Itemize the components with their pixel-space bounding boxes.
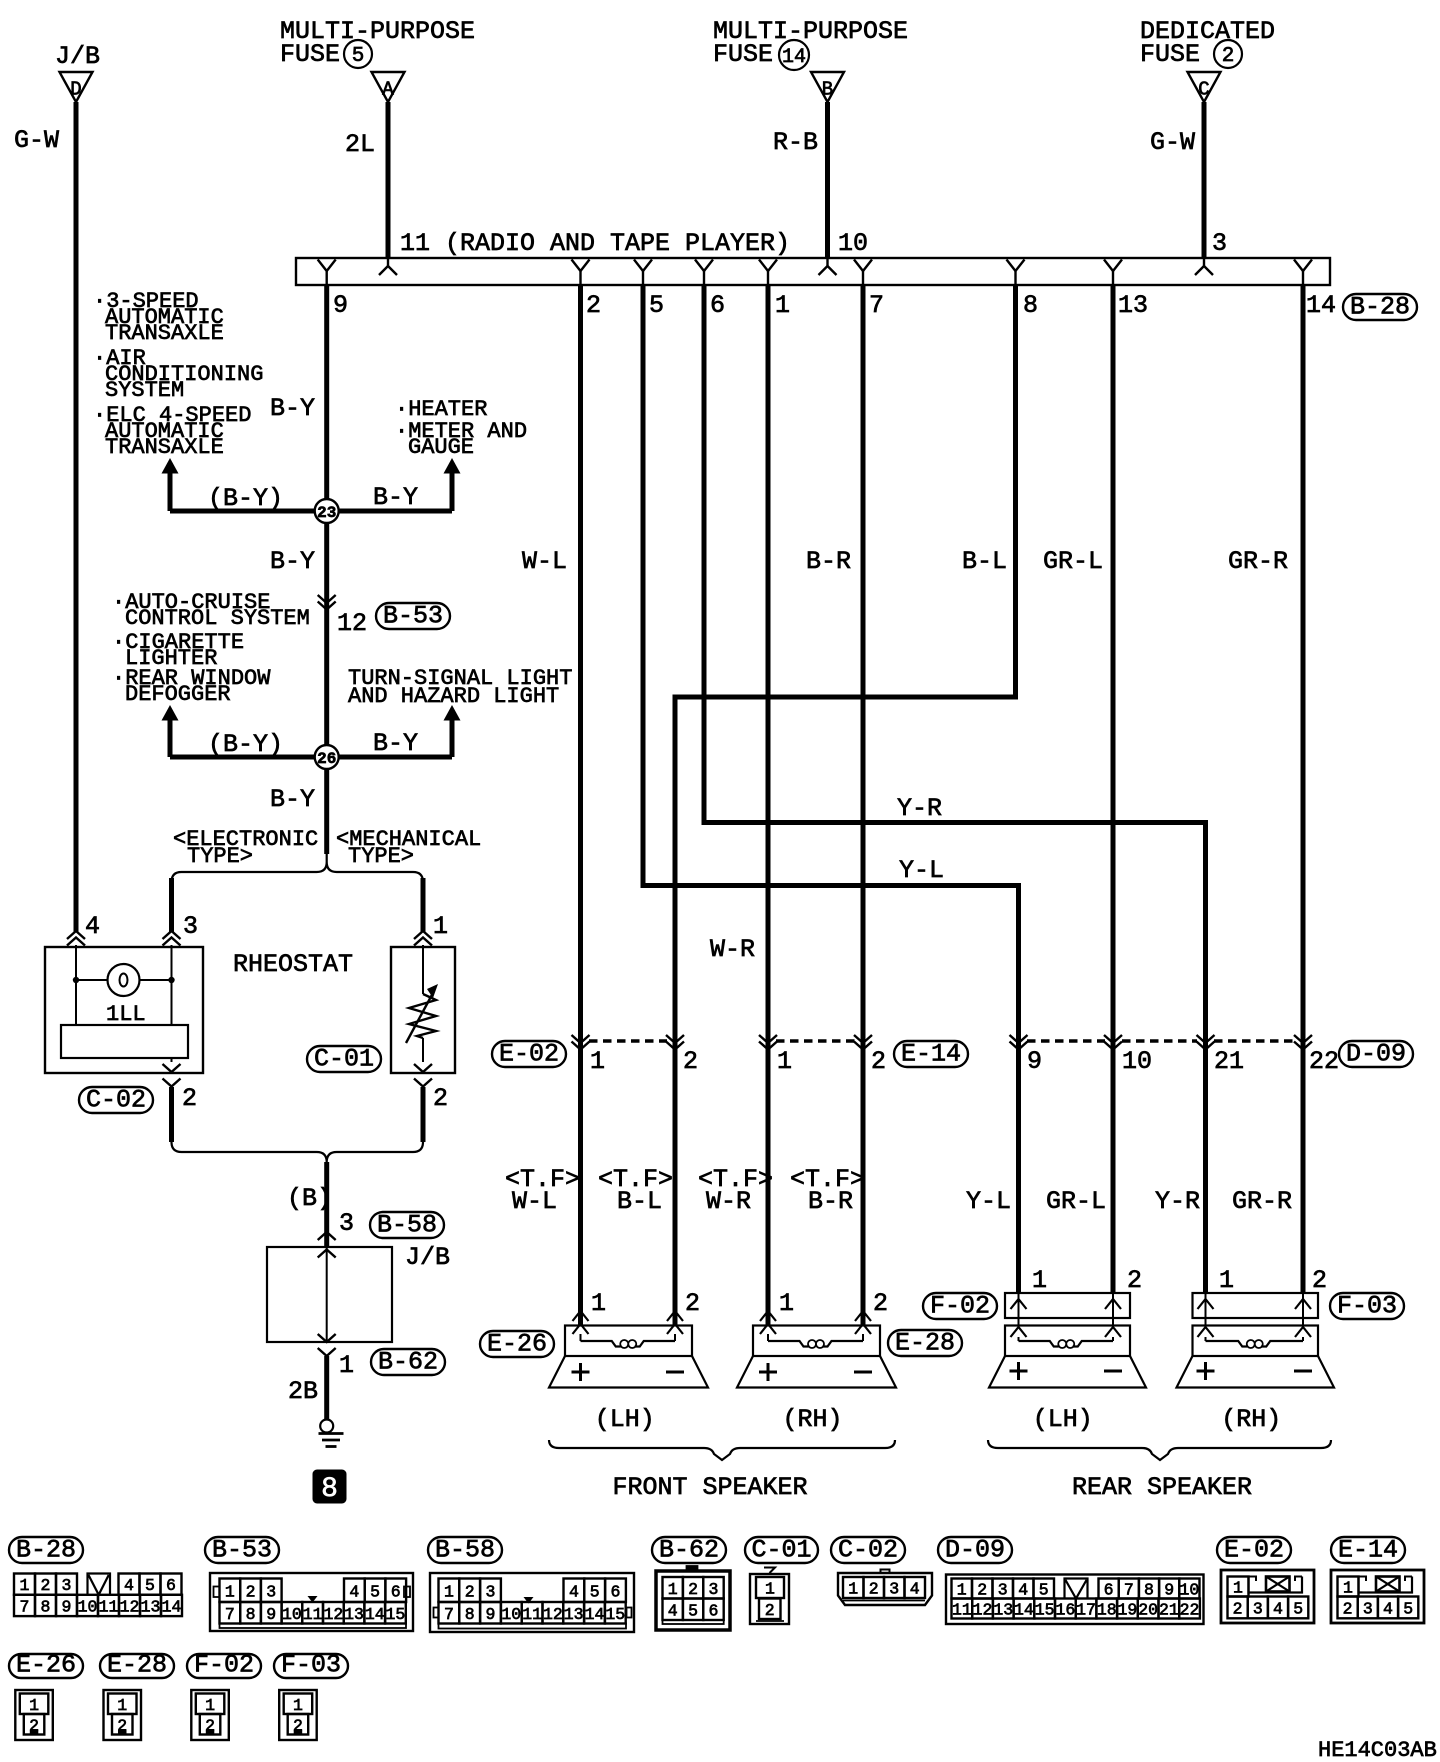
svg-text:W-L: W-L [512, 1187, 557, 1216]
speaker cone trapezoid [737, 1356, 896, 1388]
J/B box [267, 1247, 392, 1342]
svg-text:16: 16 [1055, 1601, 1075, 1620]
svg-text:1: 1 [293, 1696, 303, 1715]
radio and tape player connector box B-28 [296, 258, 1330, 285]
svg-text:13: 13 [141, 1597, 161, 1616]
rear speaker group brace [988, 1440, 1331, 1460]
svg-text:3: 3 [1253, 1599, 1263, 1618]
svg-text:6: 6 [709, 1601, 719, 1620]
wire 2B to ground [324, 1356, 329, 1420]
svg-text:1: 1 [775, 291, 790, 320]
svg-text:6: 6 [391, 1582, 401, 1601]
svg-text:B-Y: B-Y [373, 483, 418, 512]
svg-text:5: 5 [1293, 1599, 1303, 1618]
svg-text:3: 3 [998, 1581, 1008, 1600]
svg-text:8: 8 [321, 1474, 338, 1505]
svg-text:SYSTEM: SYSTEM [105, 378, 184, 403]
svg-text:D-09: D-09 [1346, 1040, 1406, 1069]
connector pinout E-02 [1217, 1537, 1291, 1563]
svg-text:2: 2 [871, 1047, 886, 1076]
svg-text:5: 5 [688, 1601, 698, 1620]
svg-text:REAR SPEAKER: REAR SPEAKER [1072, 1473, 1252, 1502]
svg-text:2: 2 [765, 1601, 775, 1620]
svg-text:3: 3 [339, 1209, 354, 1238]
svg-text:F-03: F-03 [281, 1651, 341, 1680]
svg-text:J/B: J/B [405, 1243, 450, 1272]
speaker coil box [565, 1326, 692, 1357]
svg-text:E-26: E-26 [16, 1651, 76, 1680]
svg-text:7: 7 [444, 1605, 454, 1624]
svg-text:14: 14 [1014, 1601, 1034, 1620]
svg-text:4: 4 [1273, 1599, 1283, 1618]
svg-text:13: 13 [564, 1605, 584, 1624]
svg-text:7: 7 [869, 291, 884, 320]
svg-text:14: 14 [162, 1597, 182, 1616]
svg-text:19: 19 [1118, 1601, 1138, 1620]
svg-text:W-R: W-R [710, 935, 755, 964]
svg-text:2: 2 [41, 1576, 51, 1595]
svg-text:2: 2 [683, 1047, 698, 1076]
svg-text:3: 3 [486, 1582, 496, 1601]
svg-text:7: 7 [1124, 1581, 1134, 1600]
svg-text:5: 5 [590, 1582, 600, 1601]
wire W-L pin 2 to front speaker LH + [578, 285, 583, 1326]
svg-text:5: 5 [370, 1582, 380, 1601]
svg-text:B-R: B-R [806, 547, 851, 576]
wire GR-L pin 13 to rear speaker LH - [1111, 285, 1116, 1294]
svg-text:FUSE: FUSE [713, 40, 773, 69]
svg-text:5: 5 [649, 291, 664, 320]
svg-text:4: 4 [85, 912, 100, 941]
wire G-W from fuse C to radio pin 3 [1202, 102, 1207, 259]
connector label B-58 [370, 1212, 444, 1238]
wire to rheostat pin 3 [169, 878, 174, 932]
D-09 keyway [1065, 1579, 1088, 1599]
svg-text:1: 1 [433, 912, 448, 941]
svg-text:9: 9 [1164, 1581, 1174, 1600]
svg-text:8: 8 [1144, 1581, 1154, 1600]
connector label C-02 [79, 1087, 153, 1113]
svg-text:12: 12 [337, 609, 367, 638]
svg-text:9: 9 [266, 1605, 276, 1624]
svg-text:10: 10 [501, 1605, 521, 1624]
svg-text:1: 1 [779, 1289, 794, 1318]
svg-text:11 (RADIO AND TAPE PLAYER): 11 (RADIO AND TAPE PLAYER) [400, 229, 790, 258]
svg-text:G-W: G-W [1150, 128, 1195, 157]
wire 2L from fuse A to radio pin 11 [386, 102, 391, 259]
svg-text:1: 1 [444, 1582, 454, 1601]
svg-text:5: 5 [1403, 1599, 1413, 1618]
lamp circuit inside: wire [75, 945, 77, 980]
svg-text:4: 4 [668, 1601, 678, 1620]
connector pinout E-14 [1331, 1537, 1405, 1563]
svg-text:B-Y: B-Y [270, 785, 315, 814]
svg-text:12: 12 [120, 1597, 140, 1616]
wire B-Y pin 9 down [324, 285, 329, 854]
speaker cone trapezoid [549, 1356, 708, 1388]
svg-text:13: 13 [344, 1605, 364, 1624]
svg-text:TRANSAXLE: TRANSAXLE [105, 435, 224, 460]
connector pinout E-26 [9, 1654, 83, 1678]
ground reference 8 (black box) [313, 1470, 346, 1503]
svg-text:14: 14 [365, 1605, 385, 1624]
svg-text:15: 15 [1035, 1601, 1055, 1620]
svg-text:21: 21 [1214, 1047, 1244, 1076]
svg-text:G-W: G-W [14, 126, 59, 155]
connector pinout C-02 [831, 1537, 905, 1563]
svg-text:13: 13 [993, 1601, 1013, 1620]
connector pinout B-62 [652, 1537, 726, 1563]
radio box pin arrows (outgoing) [318, 260, 336, 272]
svg-text:1: 1 [668, 1580, 678, 1599]
svg-text:(B-Y): (B-Y) [208, 730, 283, 759]
svg-text:1: 1 [590, 1047, 605, 1076]
svg-text:C-01: C-01 [751, 1536, 811, 1565]
chevrons at intermediate connectors [572, 1035, 590, 1043]
svg-text:2: 2 [586, 291, 601, 320]
svg-text:Y-L: Y-L [899, 856, 944, 885]
svg-text:5: 5 [1039, 1581, 1049, 1600]
chevrons exiting J/B to B-62 pin 1 [318, 1334, 336, 1342]
svg-text:14: 14 [1306, 291, 1336, 320]
wire B-R pin 7 to front speaker RH - [861, 285, 866, 1326]
svg-text:8: 8 [246, 1605, 256, 1624]
svg-text:B-L: B-L [617, 1187, 662, 1216]
connector pinout E-28 [100, 1654, 174, 1678]
svg-text:B-Y: B-Y [270, 547, 315, 576]
svg-text:B-Y: B-Y [373, 729, 418, 758]
svg-text:12: 12 [323, 1605, 343, 1624]
svg-text:11: 11 [99, 1597, 119, 1616]
svg-text:F-03: F-03 [1337, 1292, 1397, 1321]
svg-text:Y-L: Y-L [966, 1187, 1011, 1216]
bottom brace merging to (B) wire [172, 1140, 424, 1162]
connector label C-01 [307, 1046, 381, 1072]
svg-text:E-02: E-02 [1224, 1536, 1284, 1565]
svg-text:5: 5 [352, 45, 365, 68]
svg-text:TYPE>: TYPE> [187, 844, 253, 869]
svg-text:B-28: B-28 [16, 1536, 76, 1565]
svg-text:B: B [822, 79, 833, 101]
svg-text:FUSE: FUSE [1140, 40, 1200, 69]
svg-text:GAUGE: GAUGE [408, 435, 474, 460]
wire W-R pin 1 to front speaker RH + [766, 285, 771, 1326]
svg-text:(LH): (LH) [595, 1405, 655, 1434]
svg-text:1: 1 [591, 1289, 606, 1318]
svg-text:1: 1 [225, 1582, 235, 1601]
svg-text:8: 8 [465, 1605, 475, 1624]
rear speaker LH [1005, 1326, 1130, 1357]
svg-text:2: 2 [1222, 45, 1235, 68]
svg-text:R-B: R-B [773, 128, 818, 157]
svg-text:E-28: E-28 [895, 1329, 955, 1358]
svg-text:23: 23 [317, 504, 336, 522]
svg-text:B-62: B-62 [378, 1348, 438, 1377]
svg-text:3: 3 [183, 912, 198, 941]
svg-text:2L: 2L [345, 130, 375, 159]
svg-text:F-02: F-02 [194, 1651, 254, 1680]
svg-text:6: 6 [166, 1576, 176, 1595]
svg-text:8: 8 [1023, 291, 1038, 320]
branch wire horizontal node 23 [170, 509, 452, 514]
svg-text:E-14: E-14 [1338, 1536, 1398, 1565]
connector label B-28 [1343, 294, 1417, 320]
svg-text:B-62: B-62 [659, 1536, 719, 1565]
svg-text:9: 9 [1027, 1047, 1042, 1076]
svg-text:2: 2 [433, 1084, 448, 1113]
wire B-L pin 8: down, left, down to front speaker LH - [675, 285, 1016, 1326]
svg-text:3: 3 [1212, 229, 1227, 258]
plus terminal [759, 1371, 777, 1374]
svg-text:22: 22 [1180, 1601, 1200, 1620]
svg-text:A: A [382, 79, 394, 101]
svg-text:B-28: B-28 [1350, 293, 1410, 322]
svg-text:3: 3 [889, 1580, 899, 1599]
svg-text:1: 1 [205, 1696, 215, 1715]
svg-text:CONTROL SYSTEM: CONTROL SYSTEM [125, 606, 310, 631]
connector pinout B-58 [428, 1537, 502, 1563]
svg-text:3: 3 [62, 1576, 72, 1595]
svg-text:B-R: B-R [808, 1187, 853, 1216]
svg-text:D-09: D-09 [945, 1536, 1005, 1565]
svg-text:2: 2 [977, 1581, 987, 1600]
svg-text:10: 10 [838, 229, 868, 258]
svg-text:FUSE: FUSE [280, 40, 340, 69]
coil [581, 1341, 621, 1347]
svg-text:4: 4 [349, 1582, 359, 1601]
rheostat electronic type box C-02 [45, 947, 203, 1073]
svg-text:7: 7 [225, 1605, 235, 1624]
svg-text:2: 2 [182, 1084, 197, 1113]
connector pinout F-02 [187, 1654, 261, 1678]
branch arrows to transaxle (left) at node 23 [162, 458, 179, 474]
svg-text:2: 2 [685, 1289, 700, 1318]
svg-text:1: 1 [765, 1580, 775, 1599]
svg-text:10: 10 [78, 1597, 98, 1616]
wire GR-R pin 14 to rear speaker RH - [1301, 285, 1306, 1294]
junction node 26 [315, 745, 339, 769]
svg-text:26: 26 [317, 750, 336, 768]
radio box pin arrows (incoming from fuses) [387, 259, 389, 267]
chevrons exiting C-02 pin 2 [163, 1064, 181, 1072]
svg-text:2: 2 [688, 1580, 698, 1599]
svg-text:GR-L: GR-L [1043, 547, 1103, 576]
svg-text:18: 18 [1097, 1601, 1117, 1620]
svg-text:W-L: W-L [522, 547, 567, 576]
svg-text:HE14C03AB: HE14C03AB [1318, 1738, 1437, 1762]
wire to rheostat pin 1 [421, 878, 426, 932]
svg-text:20: 20 [1138, 1601, 1158, 1620]
svg-text:(RH): (RH) [1221, 1405, 1281, 1434]
svg-text:15: 15 [386, 1605, 406, 1624]
svg-text:J/B: J/B [55, 42, 100, 71]
branch arrow to heater (right) at node 23 [444, 458, 461, 474]
ground symbol [320, 1420, 333, 1433]
svg-text:Y-R: Y-R [897, 794, 942, 823]
svg-text:(LH): (LH) [1033, 1405, 1093, 1434]
svg-text:9: 9 [486, 1605, 496, 1624]
svg-text:3: 3 [1363, 1599, 1373, 1618]
svg-text:17: 17 [1076, 1601, 1096, 1620]
rheostat mechanical type box C-01 [391, 947, 455, 1073]
svg-text:E-28: E-28 [107, 1651, 167, 1680]
svg-text:6: 6 [1104, 1581, 1114, 1600]
connector B-53 pin 12 pass-through chevrons [318, 595, 336, 603]
svg-text:2: 2 [1127, 1266, 1142, 1295]
svg-text:TYPE>: TYPE> [348, 844, 414, 869]
rear speaker RH [1193, 1326, 1319, 1357]
svg-text:3: 3 [709, 1580, 719, 1599]
connector pinout C-01 [745, 1537, 818, 1563]
svg-text:4: 4 [124, 1576, 134, 1595]
svg-text:B-58: B-58 [435, 1536, 495, 1565]
svg-text:1: 1 [848, 1580, 858, 1599]
svg-text:1: 1 [1219, 1266, 1234, 1295]
svg-text:14: 14 [585, 1605, 605, 1624]
svg-text:2: 2 [869, 1580, 879, 1599]
inner resistor block [61, 1025, 188, 1058]
svg-text:9: 9 [62, 1597, 72, 1616]
wire (B) down to J/B [324, 1162, 329, 1247]
front speaker group brace [549, 1440, 895, 1460]
svg-text:7: 7 [20, 1597, 30, 1616]
svg-text:10: 10 [282, 1605, 302, 1624]
svg-text:6: 6 [710, 291, 725, 320]
svg-text:GR-R: GR-R [1232, 1187, 1292, 1216]
svg-text:22: 22 [1309, 1047, 1339, 1076]
svg-text:Y-R: Y-R [1155, 1187, 1200, 1216]
svg-text:21: 21 [1159, 1601, 1179, 1620]
svg-text:8: 8 [41, 1597, 51, 1616]
connector label B-53 [376, 603, 450, 629]
connector label E-02 [492, 1041, 566, 1067]
connector pinout F-03 [274, 1654, 348, 1678]
svg-text:E-14: E-14 [901, 1040, 961, 1069]
svg-text:B-53: B-53 [383, 602, 443, 631]
svg-text:2B: 2B [288, 1377, 318, 1406]
lamp symbol 1LL [108, 964, 140, 996]
intermediate connectors dashed line [589, 1039, 667, 1043]
svg-text:RHEOSTAT: RHEOSTAT [233, 950, 353, 979]
svg-text:11: 11 [522, 1605, 542, 1624]
svg-text:C-02: C-02 [86, 1086, 146, 1115]
svg-text:1: 1 [1343, 1579, 1353, 1598]
svg-text:11: 11 [303, 1605, 323, 1624]
wire G-W from J/B D down to rheostat pin 4 [74, 102, 79, 932]
svg-text:DEFOGGER: DEFOGGER [125, 682, 231, 707]
svg-text:C: C [1198, 79, 1209, 101]
svg-text:E-02: E-02 [499, 1040, 559, 1069]
svg-text:10: 10 [1122, 1047, 1152, 1076]
svg-text:W-R: W-R [706, 1187, 751, 1216]
svg-text:11: 11 [952, 1601, 972, 1620]
svg-text:B-Y: B-Y [270, 394, 315, 423]
svg-text:1: 1 [29, 1696, 39, 1715]
minus terminal [666, 1371, 684, 1374]
svg-text:1: 1 [1032, 1266, 1047, 1295]
svg-text:6: 6 [611, 1582, 621, 1601]
svg-text:4: 4 [1383, 1599, 1393, 1618]
connector label B-62 [371, 1349, 445, 1375]
svg-text:B-L: B-L [962, 547, 1007, 576]
junction node 23 [315, 499, 339, 523]
top brace splitting B-Y wire to two types [172, 854, 424, 884]
minus terminal [854, 1371, 872, 1374]
svg-text:GR-R: GR-R [1228, 547, 1288, 576]
plus terminal [572, 1371, 590, 1374]
wire Y-R pin 6: down, right, down to rear speaker RH + [704, 285, 1206, 1294]
svg-text:1: 1 [117, 1696, 127, 1715]
branch wire horizontal node 26 [170, 755, 452, 760]
svg-text:1: 1 [20, 1576, 30, 1595]
svg-text:2: 2 [246, 1582, 256, 1601]
coil [768, 1341, 809, 1347]
svg-text:2: 2 [1312, 1266, 1327, 1295]
connector label E-14 [894, 1041, 968, 1067]
svg-text:1LL: 1LL [106, 1002, 146, 1027]
svg-text:4: 4 [1018, 1581, 1028, 1600]
speaker coil box [753, 1326, 880, 1357]
svg-text:B-58: B-58 [377, 1211, 437, 1240]
variable resistor symbol [422, 945, 424, 994]
svg-text:10: 10 [1179, 1581, 1199, 1600]
svg-text:1: 1 [777, 1047, 792, 1076]
svg-text:B-53: B-53 [212, 1536, 272, 1565]
svg-text:2: 2 [465, 1582, 475, 1601]
rear speaker connector box [1005, 1293, 1130, 1318]
svg-text:12: 12 [543, 1605, 563, 1624]
svg-text:1: 1 [339, 1351, 354, 1380]
svg-text:15: 15 [605, 1605, 625, 1624]
svg-text:C-01: C-01 [314, 1045, 374, 1074]
wire Y-L pin 5: down, right, down to rear speaker LH + [643, 285, 1019, 1294]
svg-text:3: 3 [266, 1582, 276, 1601]
rear speaker connector box [1193, 1293, 1319, 1318]
connector pinout B-28 [9, 1537, 83, 1563]
svg-text:2: 2 [873, 1289, 888, 1318]
svg-text:F-02: F-02 [930, 1292, 990, 1321]
svg-text:(RH): (RH) [783, 1405, 843, 1434]
svg-text:1: 1 [957, 1581, 967, 1600]
svg-text:(B): (B) [287, 1184, 332, 1213]
connector label D-09 [1339, 1041, 1413, 1067]
svg-text:4: 4 [569, 1582, 579, 1601]
svg-text:FRONT SPEAKER: FRONT SPEAKER [612, 1473, 807, 1502]
svg-text:2: 2 [1233, 1599, 1243, 1618]
svg-text:5: 5 [145, 1576, 155, 1595]
svg-text:14: 14 [782, 46, 806, 69]
svg-text:C-02: C-02 [838, 1536, 898, 1565]
chevrons entering rheostat (electronic) box [67, 931, 85, 939]
svg-text:2: 2 [1343, 1599, 1353, 1618]
connector pinout D-09 [938, 1537, 1012, 1563]
svg-text:1: 1 [1233, 1579, 1243, 1598]
svg-text:AND HAZARD LIGHT: AND HAZARD LIGHT [348, 684, 559, 709]
svg-text:12: 12 [973, 1601, 993, 1620]
junction dots [73, 977, 79, 983]
svg-text:E-26: E-26 [487, 1330, 547, 1359]
branch arrows at node 26 [162, 705, 179, 721]
svg-text:GR-L: GR-L [1046, 1187, 1106, 1216]
chevrons exiting C-01 pin 2 [414, 1064, 432, 1072]
B-28 keyway [88, 1574, 111, 1595]
connector pinout B-53 [205, 1537, 279, 1563]
wire R-B from fuse B to radio pin 10 [825, 102, 830, 259]
svg-text:D: D [70, 79, 81, 101]
svg-text:13: 13 [1118, 291, 1148, 320]
svg-text:TRANSAXLE: TRANSAXLE [105, 321, 224, 346]
svg-text:4: 4 [910, 1580, 920, 1599]
